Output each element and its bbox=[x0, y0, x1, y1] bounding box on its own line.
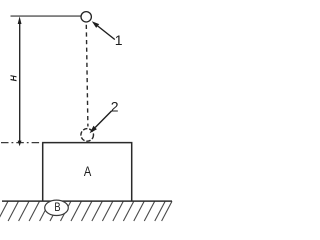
svg-text:1: 1 bbox=[115, 32, 123, 48]
svg-text:H: H bbox=[8, 74, 18, 81]
svg-text:B: B bbox=[54, 200, 60, 214]
svg-text:A: A bbox=[84, 163, 92, 179]
svg-text:2: 2 bbox=[111, 98, 119, 114]
